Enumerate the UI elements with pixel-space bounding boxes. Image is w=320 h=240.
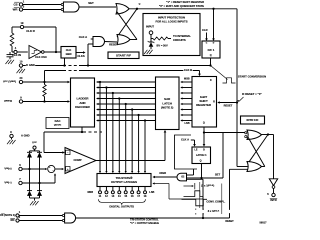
svg-text:15: 15 bbox=[124, 195, 127, 198]
svg-text:14: 14 bbox=[118, 195, 121, 198]
svg-text:13: 13 bbox=[111, 195, 114, 198]
svg-text:CLK: CLK bbox=[66, 48, 72, 52]
svg-text:−: − bbox=[67, 151, 69, 155]
svg-text:16: 16 bbox=[131, 195, 134, 198]
svg-text:CLK R: CLK R bbox=[26, 29, 35, 33]
svg-text:“0” = BUSY AND QUIESCENT STATE: “0” = BUSY AND QUIESCENT STATE bbox=[159, 4, 204, 8]
svg-text:12: 12 bbox=[105, 195, 108, 198]
svg-text:19: 19 bbox=[21, 21, 24, 25]
svg-text:Q: Q bbox=[200, 159, 202, 162]
svg-text:OUTPUT LATCHES: OUTPUT LATCHES bbox=[111, 180, 137, 184]
svg-text:SET: SET bbox=[215, 173, 221, 177]
svg-text:VCC: VCC bbox=[32, 141, 37, 145]
svg-text:LE: LE bbox=[194, 148, 197, 151]
svg-text:1: 1 bbox=[23, 0, 25, 3]
svg-text:3: 3 bbox=[23, 4, 25, 8]
svg-text:Q: Q bbox=[139, 4, 141, 6]
svg-text:10: 10 bbox=[20, 59, 23, 63]
svg-text:Q: Q bbox=[210, 54, 212, 57]
svg-text:LSB: LSB bbox=[149, 191, 154, 194]
svg-text:VIN(+): VIN(+) bbox=[4, 166, 11, 170]
svg-text:CIRCUITS: CIRCUITS bbox=[173, 38, 186, 42]
svg-text:CS: CS bbox=[13, 2, 17, 6]
svg-text:17: 17 bbox=[137, 195, 140, 198]
svg-text:DECODER: DECODER bbox=[75, 105, 90, 109]
svg-text:CLK B: CLK B bbox=[184, 68, 192, 72]
svg-text:20: 20 bbox=[20, 76, 23, 80]
svg-text:F/F 1: F/F 1 bbox=[208, 48, 215, 52]
svg-text:COMP: COMP bbox=[73, 158, 81, 162]
svg-text:RESET: RESET bbox=[225, 220, 234, 223]
svg-text:9: 9 bbox=[20, 95, 22, 99]
svg-text:6: 6 bbox=[19, 163, 21, 167]
svg-text:(NOTE 2): (NOTE 2) bbox=[161, 105, 173, 109]
svg-text:GEN: GEN bbox=[66, 52, 72, 56]
svg-text:RESET: RESET bbox=[109, 43, 118, 47]
svg-text:CLR: CLR bbox=[202, 28, 208, 32]
svg-text:CLK A: CLK A bbox=[181, 138, 189, 142]
svg-text:R: R bbox=[213, 100, 215, 103]
svg-text:TRI-STATE® CONTROL: TRI-STATE® CONTROL bbox=[130, 217, 159, 221]
svg-text:INPUT PROTECTION: INPUT PROTECTION bbox=[158, 15, 185, 19]
svg-text:SET: SET bbox=[88, 1, 94, 5]
svg-text:Q: Q bbox=[203, 122, 205, 125]
svg-text:INTR F/F: INTR F/F bbox=[247, 118, 259, 122]
svg-text:START CONVERSION: START CONVERSION bbox=[238, 74, 266, 78]
svg-text:“1” = RESET SHIFT REGISTER: “1” = RESET SHIFT REGISTER bbox=[166, 0, 204, 4]
svg-text:18: 18 bbox=[144, 195, 147, 198]
svg-text:7: 7 bbox=[19, 177, 21, 181]
svg-text:CLK OSC: CLK OSC bbox=[35, 55, 47, 59]
svg-text:8: 8 bbox=[10, 130, 12, 134]
svg-text:D: D bbox=[210, 79, 212, 82]
svg-text:(1 x 1/fCLK): (1 x 1/fCLK) bbox=[201, 184, 214, 188]
svg-text:A GND: A GND bbox=[21, 134, 30, 138]
svg-text:DIGITAL OUTPUTS: DIGITAL OUTPUTS bbox=[109, 204, 134, 208]
svg-text:START F/F: START F/F bbox=[116, 53, 131, 57]
svg-text:56017: 56017 bbox=[260, 222, 268, 225]
svg-text:RESET: RESET bbox=[224, 104, 233, 108]
svg-text:+: + bbox=[67, 167, 69, 171]
svg-text:VIN(−): VIN(−) bbox=[4, 180, 11, 184]
svg-text:D GND: D GND bbox=[26, 63, 35, 67]
svg-text:“1” = OUTPUT ENABLE: “1” = OUTPUT ENABLE bbox=[130, 221, 159, 225]
svg-text:XFER: XFER bbox=[159, 171, 166, 175]
svg-text:4: 4 bbox=[15, 46, 17, 50]
svg-text:BV = 30V: BV = 30V bbox=[157, 44, 168, 48]
svg-text:MSB: MSB bbox=[184, 78, 190, 81]
svg-text:FOR ALL LOGIC INPUTS: FOR ALL LOGIC INPUTS bbox=[155, 19, 187, 23]
svg-text:INPUT: INPUT bbox=[146, 24, 154, 28]
svg-text:LSB: LSB bbox=[185, 122, 190, 125]
svg-text:DAC: DAC bbox=[55, 119, 61, 123]
svg-text:5: 5 bbox=[267, 192, 269, 196]
svg-text:1: 1 bbox=[19, 211, 21, 214]
svg-text:TO INTERNAL: TO INTERNAL bbox=[173, 34, 191, 38]
svg-text:LATCH 1: LATCH 1 bbox=[196, 153, 207, 157]
svg-text:CLK A: CLK A bbox=[79, 35, 87, 39]
svg-text:INTR: INTR bbox=[270, 198, 276, 202]
svg-text:WR: WR bbox=[13, 8, 19, 12]
svg-text:IF RESET = “0”: IF RESET = “0” bbox=[242, 92, 262, 96]
svg-text:CONV. COMPL.: CONV. COMPL. bbox=[206, 200, 225, 204]
svg-text:REGISTER: REGISTER bbox=[196, 103, 212, 107]
svg-text:V(OUT): V(OUT) bbox=[54, 123, 62, 127]
svg-text:MSB: MSB bbox=[87, 191, 93, 194]
svg-text:VCC (VREF): VCC (VREF) bbox=[3, 79, 16, 83]
svg-text:11: 11 bbox=[99, 195, 102, 198]
svg-text:VREF/2: VREF/2 bbox=[4, 99, 13, 103]
svg-text:2: 2 bbox=[19, 216, 21, 219]
svg-text:CLKS: CLKS bbox=[77, 54, 85, 58]
svg-text:D: D bbox=[203, 148, 205, 151]
svg-text:8 x 1/fCLK: 8 x 1/fCLK bbox=[208, 209, 220, 213]
